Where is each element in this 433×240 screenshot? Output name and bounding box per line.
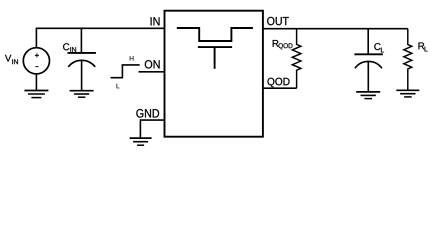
pin label QOD <box>267 78 289 87</box>
pass FET Q1 inside U1 <box>177 28 253 41</box>
wire: GND pin to ground <box>140 120 164 138</box>
ground (CL) <box>356 92 380 99</box>
wire: input rail from VIN to IN pin of U1 <box>36 28 164 47</box>
pin label OUT <box>267 17 289 25</box>
FET gate plate <box>198 46 232 48</box>
ground (VIN) <box>24 91 48 98</box>
wire: QOD pin to RQOD <box>263 87 297 89</box>
ground (RL) <box>396 90 419 97</box>
label H <box>130 56 134 61</box>
label L <box>117 84 120 89</box>
label CL <box>374 43 380 50</box>
FET gate lead <box>214 47 216 69</box>
voltage source VIN <box>23 48 49 74</box>
resistor RQOD <box>292 29 301 88</box>
wire: ON pin stub <box>139 71 165 73</box>
ground (GND pin) <box>130 138 152 145</box>
capacitor CL <box>367 29 369 55</box>
wire: VIN negative terminal to ground <box>35 74 37 91</box>
ON drive step waveform <box>111 65 140 78</box>
pin label IN <box>151 17 160 25</box>
pin label GND <box>136 109 159 118</box>
wire: output rail from OUT pin to RL <box>263 28 408 30</box>
label RL <box>419 43 425 50</box>
resistor RL <box>404 29 412 91</box>
label RQOD <box>273 40 279 47</box>
capacitor CIN <box>80 28 82 53</box>
label VIN <box>5 55 11 62</box>
label CIN <box>63 43 69 50</box>
IC box U1 (load switch) <box>165 11 263 137</box>
ground (CIN) <box>70 91 94 98</box>
pin label ON <box>145 60 160 68</box>
